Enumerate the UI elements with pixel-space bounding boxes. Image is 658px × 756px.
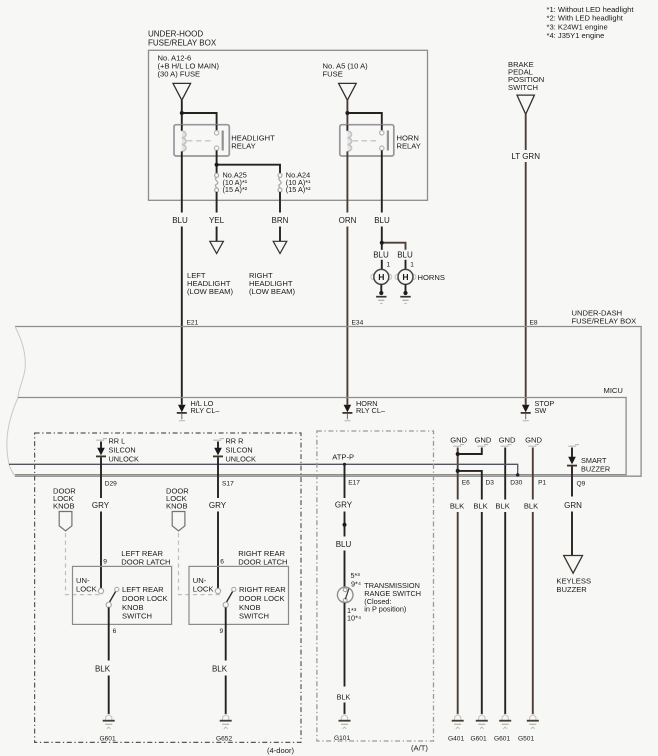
note legend	[547, 5, 635, 40]
wire YEL to left headlight	[209, 192, 225, 241]
svg-text:UNLOCK: UNLOCK	[109, 454, 140, 463]
svg-text:SILCON: SILCON	[226, 445, 253, 454]
wire BLU headlight coil to E21	[172, 156, 188, 405]
svg-text:BLK: BLK	[473, 502, 487, 511]
wire BLK D3 to G601	[473, 476, 487, 714]
svg-text:9: 9	[103, 559, 107, 566]
svg-text:BRN: BRN	[272, 216, 289, 225]
svg-text:YEL: YEL	[209, 216, 225, 225]
svg-text:ORN: ORN	[339, 216, 357, 225]
svg-text:E6: E6	[462, 480, 470, 487]
svg-text:BLU: BLU	[397, 251, 413, 260]
fuse No. A12-6	[158, 54, 220, 101]
svg-text:SW: SW	[535, 406, 547, 415]
svg-text:RELAY: RELAY	[231, 141, 255, 150]
svg-text:(LOW BEAM): (LOW BEAM)	[187, 287, 233, 296]
svg-text:(15 A)*²: (15 A)*²	[286, 185, 311, 194]
horn relay U2	[340, 125, 421, 156]
svg-text:BLK: BLK	[95, 665, 111, 674]
svg-text:Q9: Q9	[577, 481, 586, 488]
svg-text:GND: GND	[450, 435, 467, 444]
svg-text:GRY: GRY	[335, 501, 353, 510]
svg-text:G401: G401	[448, 736, 464, 743]
ground G101	[334, 714, 351, 741]
svg-text:in P position): in P position)	[364, 605, 406, 614]
svg-text:E34: E34	[352, 319, 364, 326]
ground G601 (D30)	[494, 714, 511, 742]
svg-text:G501: G501	[518, 736, 534, 743]
svg-text:MICU: MICU	[604, 386, 623, 395]
svg-text:ATP-P: ATP-P	[332, 453, 354, 462]
ground G601 (left latch)	[100, 714, 116, 742]
svg-text:BLU: BLU	[373, 251, 389, 260]
svg-text:GRY: GRY	[209, 501, 227, 510]
svg-text:FUSE: FUSE	[323, 70, 343, 79]
svg-text:D29: D29	[105, 480, 117, 487]
headlight relay U1	[174, 125, 275, 156]
MICU pin H/L LO RLY CL-	[177, 399, 221, 421]
wire GRY/BLU E17 to transmission range switch	[335, 476, 353, 587]
svg-text:KNOB: KNOB	[122, 603, 144, 612]
svg-text:*2: With LED headlight: *2: With LED headlight	[547, 14, 624, 23]
connector E21	[187, 319, 199, 326]
wire BRN to right headlight	[272, 192, 289, 241]
svg-text:E21: E21	[187, 319, 199, 326]
ground G401	[448, 714, 464, 742]
svg-text:SWITCH: SWITCH	[122, 612, 152, 621]
horn 1	[371, 269, 392, 303]
svg-text:6: 6	[220, 559, 224, 566]
svg-text:G101: G101	[334, 735, 350, 742]
svg-text:FUSE/RELAY BOX: FUSE/RELAY BOX	[572, 317, 637, 326]
wire BLK P1 to G501	[524, 476, 538, 714]
MICU GND pins	[450, 435, 542, 446]
wire relay contact to fuses A25/A24	[215, 156, 280, 173]
wire BLK right latch to G652	[212, 607, 228, 714]
svg-text:SWITCH: SWITCH	[508, 83, 538, 92]
svg-text:BUZZER: BUZZER	[581, 464, 610, 473]
ground G652	[216, 714, 232, 742]
svg-text:BLU: BLU	[374, 216, 390, 225]
svg-text:9*⁴: 9*⁴	[351, 579, 361, 588]
svg-text:(A/T): (A/T)	[411, 744, 428, 753]
svg-text:BLU: BLU	[336, 540, 352, 549]
wire BLK to G101	[337, 603, 351, 714]
svg-text:DOOR LATCH: DOOR LATCH	[238, 557, 287, 566]
svg-text:RR L: RR L	[109, 437, 126, 446]
MICU pin RR R SILCON UNLOCK	[213, 437, 256, 464]
GND bus wires inside MICU	[456, 448, 533, 476]
svg-text:DOOR LOCK: DOOR LOCK	[239, 594, 285, 603]
svg-text:*3: K24W1 engine: *3: K24W1 engine	[547, 22, 608, 31]
connector S17	[222, 480, 234, 487]
fuse No.A24	[278, 171, 311, 195]
svg-text:LEFT REAR: LEFT REAR	[122, 585, 164, 594]
left rear door lock knob switch Q	[98, 585, 167, 620]
svg-text:S17: S17	[222, 480, 234, 487]
svg-text:BLK: BLK	[450, 502, 464, 511]
wire GRN Q9 to keyless buzzer	[564, 476, 582, 555]
dash-dot box (4-door)	[35, 433, 301, 755]
svg-text:BLK: BLK	[337, 693, 351, 702]
svg-text:E17: E17	[348, 480, 360, 487]
svg-text:G652: G652	[216, 736, 232, 743]
svg-text:(15 A)*²: (15 A)*²	[223, 185, 248, 194]
svg-text:GND: GND	[474, 435, 491, 444]
left headlight (low beam)	[187, 241, 233, 295]
dash-dot box (A/T)	[317, 431, 434, 753]
svg-text:*1: Without LED headlight: *1: Without LED headlight	[547, 5, 635, 14]
svg-text:DOOR LOCK: DOOR LOCK	[122, 594, 168, 603]
wire ATP-P	[9, 453, 519, 477]
transmission range switch	[337, 571, 421, 623]
svg-text:SILCON: SILCON	[109, 445, 136, 454]
brake pedal position switch	[508, 60, 544, 114]
svg-text:KNOB: KNOB	[53, 502, 75, 511]
svg-text:LOCK: LOCK	[193, 585, 214, 594]
connector D3	[486, 480, 495, 487]
svg-text:UNDER-HOOD: UNDER-HOOD	[148, 30, 203, 39]
svg-text:LT GRN: LT GRN	[511, 152, 540, 161]
connector E6	[462, 480, 470, 487]
svg-text:G601: G601	[494, 736, 510, 743]
wire GRY S17 to right latch	[209, 457, 227, 588]
wire BLK E6 to G401	[450, 476, 464, 714]
svg-text:D3: D3	[486, 480, 495, 487]
keyless buzzer	[556, 556, 591, 595]
wire BLU horn contact to horns	[374, 156, 405, 250]
svg-text:GRY: GRY	[92, 501, 110, 510]
svg-text:RIGHT REAR: RIGHT REAR	[239, 585, 286, 594]
wire GRY D29 to left latch	[92, 457, 110, 588]
horn 2	[395, 269, 445, 303]
fuse No. A5	[323, 62, 369, 101]
svg-text:E8: E8	[530, 319, 538, 326]
right door lock knob	[166, 487, 220, 595]
svg-text:GRN: GRN	[564, 501, 582, 510]
ground G601 (D3)	[471, 714, 488, 742]
svg-text:(4-door): (4-door)	[267, 746, 294, 755]
right rear door latch	[189, 549, 289, 625]
under-dash fuse/relay box	[7, 308, 641, 476]
svg-text:DOOR LATCH: DOOR LATCH	[121, 557, 170, 566]
svg-text:KNOB: KNOB	[239, 603, 261, 612]
connector E17	[348, 480, 360, 487]
under-hood fuse/relay box	[148, 30, 428, 201]
connector D29	[105, 480, 117, 487]
MICU box	[15, 386, 626, 475]
svg-text:*4: J35Y1 engine: *4: J35Y1 engine	[547, 31, 605, 40]
svg-text:BLK: BLK	[524, 502, 538, 511]
svg-text:10*⁴: 10*⁴	[347, 614, 361, 623]
ground G501	[518, 714, 539, 742]
wire BLK left latch to G601	[95, 607, 117, 714]
svg-text:H: H	[402, 272, 408, 282]
svg-text:BLK: BLK	[212, 665, 228, 674]
wire A5 to horn relay	[345, 100, 381, 125]
svg-text:9: 9	[220, 628, 224, 635]
MICU pin SMART BUZZER	[567, 445, 610, 476]
wire ORN horn coil to E34	[339, 156, 357, 405]
left door lock knob	[53, 487, 103, 595]
svg-text:1: 1	[410, 262, 414, 269]
connector D30	[510, 480, 522, 487]
svg-text:BUZZER: BUZZER	[556, 585, 587, 594]
wire A12-6 to headlight relay	[180, 100, 217, 125]
svg-text:1: 1	[387, 262, 391, 269]
svg-text:6: 6	[113, 628, 117, 635]
connector E8	[530, 319, 538, 326]
svg-text:(LOW BEAM): (LOW BEAM)	[249, 287, 295, 296]
wire BLK D30 to G601	[495, 476, 509, 714]
svg-text:BLK: BLK	[495, 502, 509, 511]
svg-text:KNOB: KNOB	[166, 502, 188, 511]
svg-text:RLY CL–: RLY CL–	[191, 406, 221, 415]
right rear door lock knob switch	[215, 585, 286, 620]
connector P1	[538, 480, 546, 487]
wire LT GRN brake switch to E8	[511, 114, 540, 405]
svg-text:D30: D30	[510, 480, 522, 487]
connector E34	[352, 319, 364, 326]
svg-text:GND: GND	[499, 435, 516, 444]
horn branch labels	[373, 251, 414, 270]
MICU pin HORN RLY CL-	[342, 399, 385, 421]
right headlight (low beam)	[249, 241, 295, 295]
svg-text:HORNS: HORNS	[418, 273, 445, 282]
svg-text:UNLOCK: UNLOCK	[226, 454, 257, 463]
svg-text:RR R: RR R	[226, 437, 244, 446]
MICU pin STOP SW	[521, 399, 555, 421]
svg-text:GND: GND	[525, 435, 542, 444]
svg-text:G601: G601	[100, 736, 116, 743]
MICU pin RR L SILCON UNLOCK	[96, 437, 139, 464]
svg-text:FUSE/RELAY BOX: FUSE/RELAY BOX	[148, 39, 217, 48]
left rear door latch	[73, 549, 172, 625]
svg-text:SWITCH: SWITCH	[239, 612, 269, 621]
svg-text:BLU: BLU	[172, 216, 188, 225]
svg-text:RELAY: RELAY	[397, 141, 421, 150]
svg-text:H: H	[378, 272, 384, 282]
svg-text:G601: G601	[471, 736, 487, 743]
connector Q9	[577, 481, 586, 488]
svg-text:LOCK: LOCK	[76, 585, 97, 594]
svg-text:RLY CL–: RLY CL–	[356, 406, 386, 415]
svg-text:(30 A) FUSE: (30 A) FUSE	[158, 70, 201, 79]
fuse No.A25	[215, 171, 248, 195]
svg-text:P1: P1	[538, 480, 546, 487]
